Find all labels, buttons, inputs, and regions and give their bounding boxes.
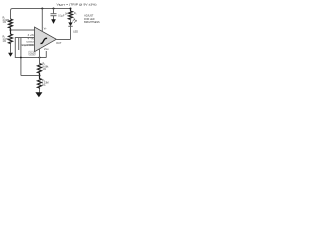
svg-text:LED: LED (73, 31, 78, 34)
capacitor C1 0.1uF (53, 9, 55, 14)
label R2 value (3, 36, 10, 44)
wire HYST pin stub (21, 44, 35, 46)
label R3 value (43, 63, 50, 71)
wire REF loop to -IN (15, 38, 46, 58)
node junction bypass cap (53, 8, 55, 10)
label pin GND boxed (29, 51, 35, 55)
svg-text:1%: 1% (43, 68, 47, 71)
wire REF pin drop (45, 51, 47, 58)
resistor R1 (9, 19, 13, 30)
resistor R3 (38, 64, 42, 76)
svg-text:OUT: OUT (56, 42, 62, 45)
label R4 value (42, 79, 49, 87)
svg-text:V+: V+ (44, 28, 48, 30)
wire op-amp output to LED (56, 39, 70, 41)
LED emission arrows (72, 19, 76, 23)
wire V+ supply to op-amp (41, 9, 43, 32)
label note adjust for LED brightness (84, 15, 100, 24)
svg-text:VBATT = (TRIP @ 9V ±3%): VBATT = (TRIP @ 9V ±3%) (57, 2, 97, 7)
resistor R5 (69, 9, 73, 20)
wire hysteresis tap riser (20, 50, 22, 76)
resistor R4 (38, 76, 42, 89)
svg-text:5 HYST: 5 HYST (27, 42, 35, 44)
op-amp U1 comparator LTC1540 (35, 27, 57, 52)
ground (R4 bottom) (39, 89, 41, 93)
svg-text:GND: GND (29, 53, 34, 55)
capacitor C2 plate B / HYST riser (20, 38, 22, 50)
wire divider tap to IN input (11, 29, 35, 31)
capacitor C2 (HYST filter) plate A (18, 38, 20, 50)
svg-text:4 −IN: 4 −IN (28, 39, 34, 41)
svg-text:BRIGHTNESS: BRIGHTNESS (84, 21, 100, 24)
svg-text:R₅: R₅ (74, 13, 77, 15)
wire GND pin drop (39, 49, 41, 58)
node junction V+ rail (41, 8, 43, 10)
svg-text:1%: 1% (42, 84, 46, 87)
svg-text:1k: 1k (65, 13, 68, 15)
node crossing blob (20, 57, 22, 59)
ground (bypass cap) (51, 19, 56, 24)
node tap junction (10, 29, 12, 31)
node junction loop/REF (39, 57, 41, 59)
hysteresis symbol inside U1 (41, 38, 48, 43)
node junction hysteresis tap (39, 75, 41, 77)
label R1 value (3, 16, 10, 24)
wire tap to riser (21, 75, 40, 77)
svg-text:VREF: VREF (44, 49, 49, 51)
resistor R2 (9, 30, 13, 44)
wire REF to R3 (39, 58, 41, 64)
ground (left divider) (10, 44, 12, 53)
wire top supply rail (11, 9, 71, 20)
LED D1 (70, 19, 72, 22)
svg-text:3 +IN: 3 +IN (28, 35, 34, 37)
node junction R5 (70, 8, 72, 10)
